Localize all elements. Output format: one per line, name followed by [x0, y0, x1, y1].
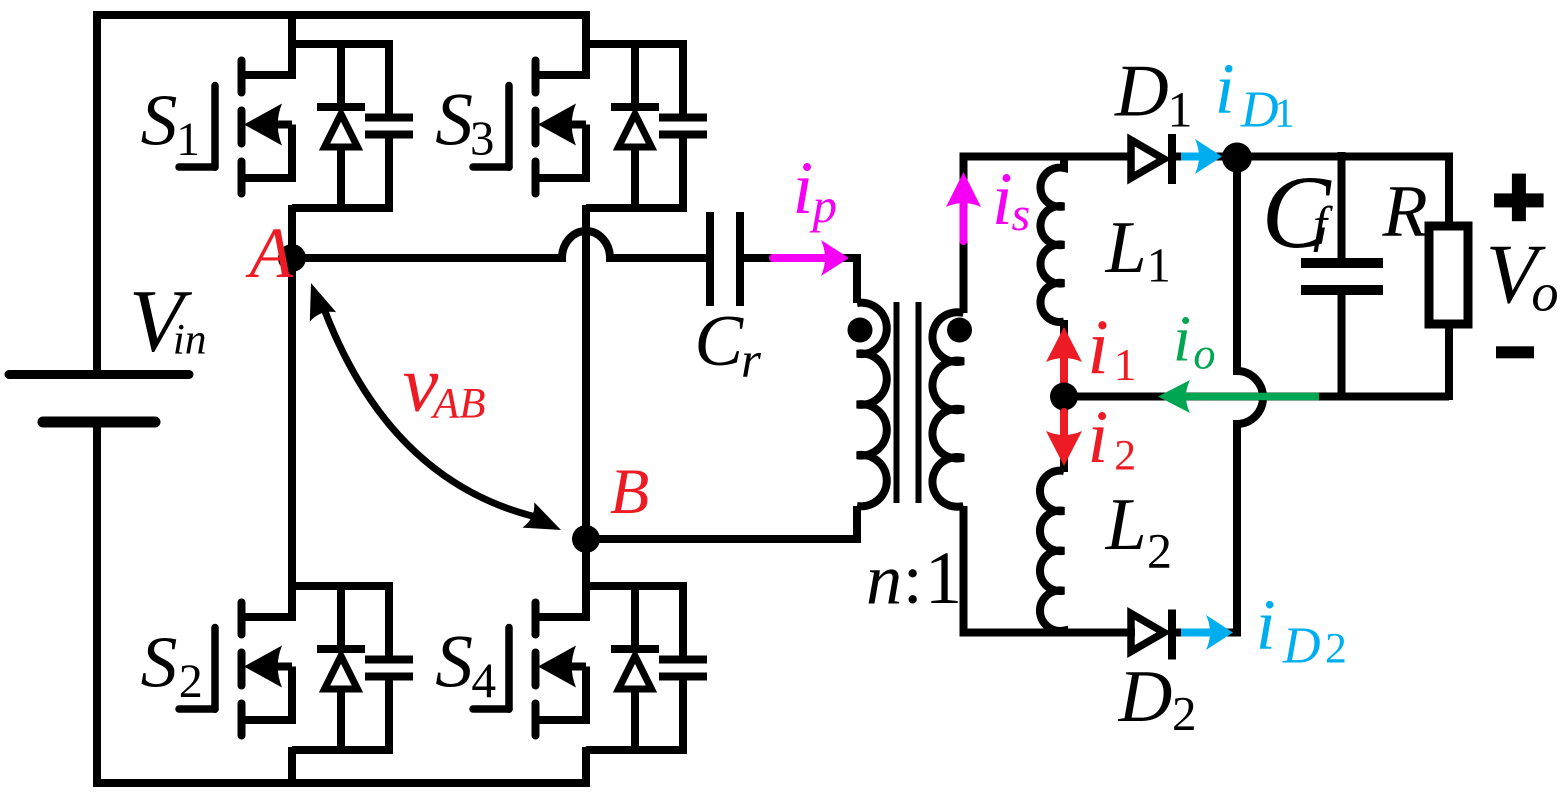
transformer T secondary winding: [932, 312, 963, 507]
svg-text:C: C: [694, 300, 744, 381]
svg-text:L: L: [1105, 206, 1147, 288]
node output-plus dot: [1222, 143, 1252, 173]
svg-text:L: L: [1105, 483, 1147, 565]
svg-text:i: i: [1215, 49, 1235, 129]
capacitor Cf top plate: [1301, 258, 1383, 268]
svg-text:o: o: [1193, 330, 1215, 379]
diode D1 triangle: [1131, 140, 1164, 178]
arrow i1 (red, up): [1046, 327, 1082, 382]
capacitor Cr left plate: [706, 212, 714, 306]
wire node B to transformer primary bottom: [586, 506, 857, 539]
svg-text:i: i: [1256, 585, 1276, 665]
arrow i2 (red, down): [1046, 412, 1082, 466]
svg-text:1: 1: [925, 537, 962, 620]
svg-text:2: 2: [1172, 686, 1197, 741]
transformer core bars: [897, 302, 919, 503]
diode D1 cathode bar: [1168, 134, 1176, 184]
wire S4 source to bottom rail: [582, 747, 590, 787]
capacitor Cf bottom plate: [1301, 285, 1383, 295]
svg-text:i: i: [992, 158, 1013, 241]
svg-text:o: o: [1531, 262, 1558, 323]
wire output-minus leg (hops over io wire): [1237, 158, 1263, 637]
wire R bottom to output wire: [1445, 320, 1453, 400]
svg-text:1: 1: [1167, 81, 1192, 137]
node B dot: [572, 525, 600, 553]
transistor S2 (MOSFET): [179, 553, 292, 736]
diode D2 cathode bar: [1168, 610, 1176, 660]
transistor S1 (MOSFET): [179, 11, 292, 194]
svg-text:r: r: [741, 333, 761, 389]
wire Cr to transformer primary top: [740, 258, 857, 303]
wire D2 to output bottom corner: [1176, 629, 1241, 637]
body diode of S2: [317, 586, 365, 750]
battery Vin positive plate: [9, 370, 189, 379]
svg-text:1: 1: [1114, 340, 1137, 390]
svg-text:n: n: [866, 538, 902, 619]
arrow io (green, output current): [1158, 380, 1319, 413]
svg-text:2: 2: [1114, 431, 1136, 479]
wire top-left rail (Vin+ to bridge top): [97, 15, 590, 374]
arrow iD1 (cyan): [1181, 139, 1222, 174]
wire leg S3-source to S4-drain through node B: [582, 205, 590, 560]
svg-text:in: in: [173, 315, 207, 363]
snubber capacitor across S2: [292, 586, 413, 750]
svg-text::: :: [903, 541, 923, 619]
label + (output positive): [1494, 174, 1544, 222]
svg-text:B: B: [610, 456, 649, 527]
svg-text:S: S: [141, 78, 178, 160]
svg-text:1: 1: [176, 114, 200, 166]
wire secondary bottom (transformer to D2): [960, 506, 968, 637]
inductor L1: [1040, 157, 1064, 322]
capacitor Cr right plate: [736, 212, 744, 306]
node center-tap dot: [1050, 383, 1078, 411]
svg-text:i: i: [793, 147, 814, 230]
wire leg S1-source to S2-drain through node A: [288, 205, 296, 560]
arrow vAB (curved measurement arrow A-B): [310, 283, 561, 530]
body diode of S4: [611, 586, 659, 750]
svg-text:4: 4: [471, 653, 496, 708]
wire bottom-left rail (Vin- to bridge bottom): [97, 422, 590, 783]
wire S2 source to bottom rail: [288, 747, 296, 787]
svg-text:s: s: [1012, 188, 1031, 241]
transformer secondary polarity dot: [947, 318, 972, 343]
arrow is (magenta, secondary current): [946, 172, 981, 241]
transformer T primary winding: [857, 303, 887, 507]
wire center tap to i2/L2: [1060, 397, 1068, 473]
snubber capacitor across S1: [292, 44, 413, 208]
transistor S4 (MOSFET): [473, 553, 586, 736]
svg-text:2: 2: [1147, 523, 1172, 579]
svg-text:S: S: [141, 620, 178, 702]
battery Vin negative plate: [43, 417, 155, 428]
node A dot: [278, 244, 306, 272]
inductor L2: [1040, 471, 1064, 633]
wire node A to Cr (hops over B leg): [292, 231, 706, 258]
svg-text:3: 3: [470, 111, 494, 165]
arrow ip (magenta, primary current): [773, 240, 849, 276]
wire L1 to center tap: [1060, 320, 1068, 398]
snubber capacitor across S3: [586, 44, 707, 208]
wire secondary top (transformer to D1): [964, 157, 1132, 314]
wire output-plus rail (dot to Cf/R corner): [1237, 157, 1449, 231]
svg-text:D: D: [1114, 51, 1169, 133]
svg-text:S: S: [435, 621, 473, 704]
snubber capacitor across S4: [586, 586, 707, 750]
svg-text:2: 2: [179, 655, 203, 708]
capacitor Cf bottom lead: [1338, 290, 1346, 400]
svg-text:i: i: [1088, 396, 1109, 479]
svg-text:R: R: [1382, 171, 1428, 253]
svg-text:D: D: [1240, 82, 1279, 139]
resistor R body: [1429, 226, 1468, 324]
label - (output negative): [1496, 346, 1534, 358]
svg-text:p: p: [810, 178, 838, 233]
body diode of S3: [611, 44, 659, 208]
svg-text:AB: AB: [430, 380, 486, 427]
body diode of S1: [317, 44, 365, 208]
diode D2 triangle: [1131, 614, 1164, 652]
svg-text:i: i: [1087, 303, 1109, 390]
wire secondary bottom rail: [960, 629, 1136, 637]
arrow iD2 (cyan): [1181, 615, 1233, 650]
svg-text:2: 2: [1325, 624, 1347, 672]
svg-text:1: 1: [1274, 89, 1295, 135]
svg-text:D: D: [1118, 656, 1173, 738]
capacitor Cf top lead: [1338, 152, 1346, 263]
svg-text:D: D: [1282, 618, 1321, 675]
wire output (center tap to R bottom): [1064, 393, 1449, 401]
svg-text:A: A: [246, 214, 294, 293]
svg-text:S: S: [435, 79, 473, 162]
svg-text:1: 1: [1147, 240, 1171, 293]
transformer primary polarity dot: [848, 318, 873, 343]
wire D1 to output node: [1176, 153, 1241, 161]
svg-text:i: i: [1173, 304, 1191, 376]
transistor S3 (MOSFET): [473, 11, 586, 194]
